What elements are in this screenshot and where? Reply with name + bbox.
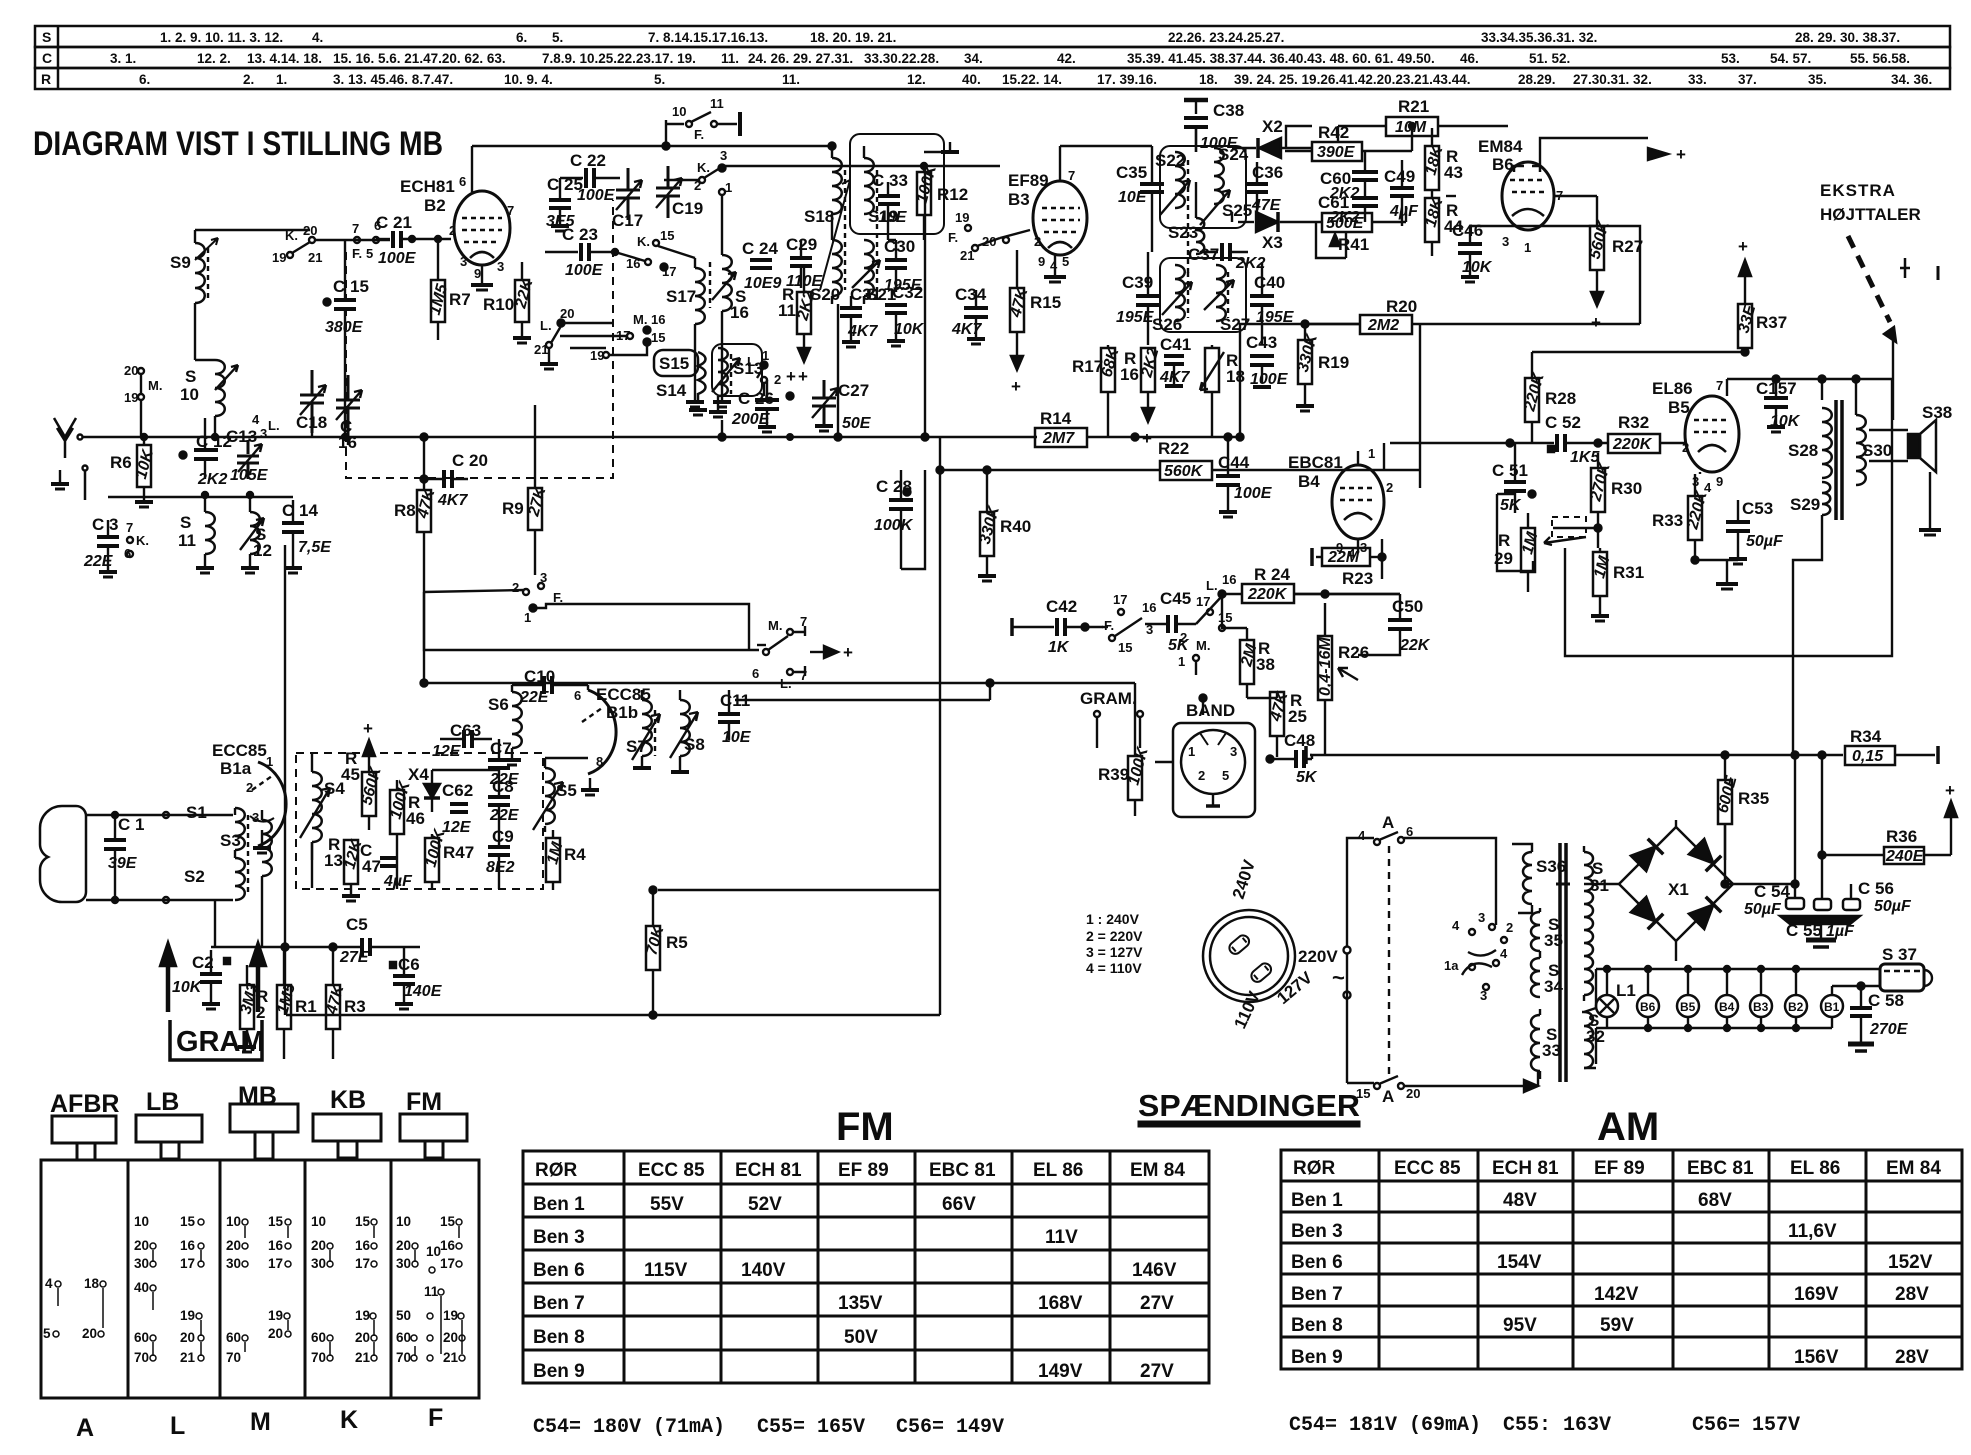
svg-text:18.: 18. (1199, 72, 1218, 87)
svg-text:F.: F. (352, 246, 362, 261)
svg-text:1.: 1. (276, 72, 287, 87)
resistor R14 (1035, 409, 1240, 447)
svg-text:LB: LB (146, 1088, 179, 1116)
resistor R15 (1007, 250, 1061, 396)
speaker S38 (1869, 403, 1952, 535)
svg-text:C 51: C 51 (1492, 461, 1528, 480)
switch A top (1358, 813, 1413, 1080)
svg-text:B1: B1 (1824, 1000, 1840, 1014)
svg-text:A: A (1382, 1087, 1394, 1106)
B+ line with R34 (1306, 727, 1938, 765)
EF89 plate rail (1059, 146, 1061, 181)
coil S23 mid (1196, 182, 1204, 254)
svg-text:Ben 7: Ben 7 (533, 1293, 585, 1314)
tuning caps C18 C16 (296, 370, 327, 433)
svg-text:C 24: C 24 (742, 239, 778, 258)
svg-text:34.: 34. (964, 51, 983, 66)
svg-text:3: 3 (720, 148, 727, 163)
coil S12 (240, 495, 272, 573)
svg-text:154V: 154V (1497, 1252, 1542, 1273)
svg-text:C43: C43 (1246, 333, 1277, 352)
capacitor C7 (488, 739, 520, 788)
svg-text:EL 86: EL 86 (1033, 1160, 1083, 1181)
svg-text:55. 56.58.: 55. 56.58. (1850, 51, 1910, 66)
svg-text:169V: 169V (1794, 1284, 1839, 1305)
svg-text:18: 18 (84, 1276, 100, 1291)
svg-text:100E: 100E (565, 262, 604, 279)
capacitor C11 (718, 690, 752, 746)
svg-text:R9: R9 (502, 499, 524, 518)
svg-text:+: + (1591, 313, 1601, 332)
main bus y=437 (430, 436, 1037, 438)
svg-text:Ben 1: Ben 1 (1291, 1190, 1343, 1211)
svg-text:3: 3 (460, 254, 467, 269)
svg-text:60: 60 (396, 1330, 411, 1345)
svg-text:15: 15 (660, 228, 674, 243)
svg-text:B3: B3 (1753, 1000, 1769, 1014)
svg-text:2K2: 2K2 (197, 471, 227, 488)
capacitor C40 (1250, 262, 1295, 345)
resistor R23 (1312, 539, 1386, 588)
svg-text:7: 7 (507, 203, 514, 218)
svg-text:17: 17 (1196, 594, 1210, 609)
svg-text:B2: B2 (424, 196, 446, 215)
resistor R3 (323, 944, 366, 1060)
coil S13 (709, 348, 763, 417)
svg-text:2: 2 (449, 223, 456, 238)
transformer core (1558, 843, 1562, 1082)
BAND socket (1155, 695, 1255, 818)
svg-text:22E: 22E (519, 689, 550, 706)
svg-text:+: + (798, 367, 808, 386)
svg-text:1: 1 (1524, 240, 1531, 255)
S15/S14 box (654, 350, 707, 415)
resistor R39 (1098, 683, 1152, 816)
svg-text:Ben 8: Ben 8 (533, 1327, 585, 1348)
capacitor C5 (285, 915, 420, 966)
resistor R9 (502, 405, 550, 575)
dashed FM box (296, 753, 543, 889)
svg-text:C42: C42 (1046, 597, 1077, 616)
svg-text:1: 1 (266, 754, 273, 769)
svg-text:20: 20 (226, 1238, 241, 1253)
svg-text:105E: 105E (230, 467, 269, 484)
resistor R38 (1238, 628, 1277, 698)
svg-text:RØR: RØR (1293, 1158, 1336, 1179)
resistor R6 (110, 434, 157, 507)
svg-text:R21: R21 (1398, 97, 1429, 116)
wire top of S9 (195, 229, 310, 231)
svg-text:2: 2 (1034, 234, 1041, 249)
svg-text:EL86: EL86 (1652, 379, 1693, 398)
svg-text:390E: 390E (1317, 144, 1356, 161)
wire K3 to right (724, 165, 1000, 167)
svg-text:17: 17 (268, 1256, 283, 1271)
svg-text:33.34.35.36.31. 32.: 33.34.35.36.31. 32. (1481, 30, 1597, 45)
svg-text:EKSTRA: EKSTRA (1820, 181, 1896, 200)
pickup wires (86, 814, 233, 816)
trimmer C17 (612, 168, 643, 230)
svg-text:L.: L. (540, 318, 552, 333)
resistor R17 (1072, 345, 1123, 437)
svg-text:20: 20 (355, 1330, 370, 1345)
svg-text:2.: 2. (243, 72, 254, 87)
svg-text:1 : 240V: 1 : 240V (1086, 911, 1140, 927)
svg-text:S: S (180, 513, 191, 532)
svg-text:7: 7 (1716, 378, 1723, 393)
svg-text:2: 2 (1180, 630, 1187, 645)
tube EBC81 B4 (1288, 446, 1393, 561)
svg-text:3: 3 (1502, 234, 1509, 249)
svg-text:21: 21 (308, 250, 322, 265)
svg-text:53.: 53. (1721, 51, 1740, 66)
svg-text:X2: X2 (1262, 117, 1283, 136)
svg-text:10K: 10K (1462, 259, 1493, 276)
svg-text:0,15: 0,15 (1852, 748, 1884, 765)
capacitor C44 (1216, 434, 1273, 518)
svg-text:22K: 22K (1399, 637, 1431, 654)
svg-text:2M2: 2M2 (1367, 317, 1399, 334)
svg-text:B6: B6 (1640, 1000, 1656, 1014)
svg-text:142V: 142V (1594, 1284, 1639, 1305)
svg-text:68V: 68V (1698, 1190, 1732, 1211)
capacitor C35 (1116, 146, 1164, 252)
svg-text:19: 19 (355, 1308, 370, 1323)
trimmer C19 (656, 166, 703, 218)
svg-text:C56= 157V: C56= 157V (1692, 1414, 1800, 1437)
svg-text:1µF: 1µF (1826, 923, 1855, 940)
coil S3 (220, 810, 272, 890)
svg-text:4K7: 4K7 (951, 321, 982, 338)
svg-text:20: 20 (268, 1326, 283, 1341)
svg-text:C41: C41 (1160, 335, 1191, 354)
svg-text:35.: 35. (1808, 72, 1827, 87)
svg-text:2K2: 2K2 (1329, 209, 1359, 226)
wires controls (1294, 593, 1400, 595)
svg-text:C37: C37 (1188, 245, 1219, 264)
svg-text:270E: 270E (1869, 1021, 1909, 1038)
svg-text:C48: C48 (1284, 731, 1315, 750)
svg-text:156V: 156V (1794, 1347, 1839, 1368)
svg-text:11: 11 (178, 531, 196, 550)
capacitor C6 (390, 947, 443, 1009)
svg-text:19: 19 (443, 1308, 458, 1323)
svg-text:11: 11 (778, 301, 796, 320)
secondary S31 (1556, 846, 1609, 1001)
svg-text:2: 2 (1198, 768, 1205, 783)
svg-text:Ben 8: Ben 8 (1291, 1315, 1343, 1336)
heater winding S32 (1584, 1011, 1605, 1068)
riser to EM84 grid (1502, 226, 1640, 324)
svg-text:10K: 10K (894, 321, 925, 338)
svg-text:RØR: RØR (535, 1160, 578, 1181)
svg-text:22E: 22E (83, 553, 114, 570)
resistor R42 (1285, 123, 1392, 161)
svg-text:R27: R27 (1612, 237, 1643, 256)
svg-text:12. 2.: 12. 2. (197, 51, 231, 66)
rail y=352 (1532, 351, 1745, 353)
svg-text:SPÆNDINGER: SPÆNDINGER (1138, 1088, 1360, 1123)
svg-text:7.8.9. 10.25.22.23.17. 19.: 7.8.9. 10.25.22.23.17. 19. (542, 51, 696, 66)
svg-text:24. 26. 29. 27.31.: 24. 26. 29. 27.31. (748, 51, 853, 66)
svg-text:13. 4.14. 18.: 13. 4.14. 18. (247, 51, 322, 66)
svg-text:M: M (250, 1408, 271, 1436)
svg-text:Ben 7: Ben 7 (1291, 1284, 1343, 1305)
svg-text:39. 24. 25. 19.26.41.42.20.23.: 39. 24. 25. 19.26.41.42.20.23.21.43.44. (1234, 72, 1470, 87)
plate/screen wiring EL86 (1726, 379, 1728, 396)
capacitor C49 (1384, 160, 1419, 226)
svg-text:S18: S18 (804, 207, 834, 226)
svg-text:8: 8 (596, 754, 603, 769)
svg-text:ECC 85: ECC 85 (638, 1160, 705, 1181)
capacitor C9 (486, 827, 515, 876)
svg-text:3: 3 (252, 810, 259, 825)
svg-text:6.: 6. (516, 30, 527, 45)
dashed gang box (346, 200, 613, 478)
heater B3 (1750, 995, 1772, 1017)
svg-text:C49: C49 (1384, 167, 1415, 186)
AM voltage table (1281, 1150, 1962, 1369)
lower switch F 2/3/1 (424, 570, 563, 625)
resistor R8 + C20 (394, 434, 439, 651)
svg-text:20: 20 (180, 1330, 195, 1345)
svg-text:R8: R8 (394, 501, 416, 520)
resistor R4 (544, 830, 586, 890)
resistor R41 500E (1316, 213, 1406, 254)
svg-text:S5: S5 (556, 781, 577, 800)
svg-text:100E: 100E (378, 250, 417, 267)
capacitors C60 C61 (1318, 151, 1378, 226)
svg-text:10K: 10K (172, 979, 203, 996)
switch A bottom (1356, 1076, 1420, 1106)
svg-text:60: 60 (134, 1330, 149, 1345)
svg-text:3: 3 (1480, 988, 1487, 1003)
svg-text:1K: 1K (1048, 639, 1070, 656)
svg-text:20: 20 (1406, 1086, 1420, 1101)
resistor R25 (1267, 689, 1307, 757)
svg-text:R12: R12 (937, 185, 968, 204)
heater B1 (1821, 995, 1843, 1017)
coil S11 (178, 495, 215, 573)
svg-text:R 24: R 24 (1254, 565, 1290, 584)
svg-text:27E: 27E (339, 949, 370, 966)
svg-text:S30: S30 (1862, 441, 1892, 460)
coil S6 (488, 685, 522, 765)
svg-text:2M7: 2M7 (1042, 430, 1075, 447)
svg-text:115V: 115V (644, 1260, 688, 1281)
resistor R16 (1120, 346, 1163, 448)
svg-text:GRAM.: GRAM. (1080, 689, 1137, 708)
svg-text:3: 3 (497, 259, 504, 274)
resistor R36 (power) (1822, 781, 1957, 865)
switch L16 M (1142, 572, 1236, 675)
svg-text:1: 1 (1368, 446, 1375, 461)
svg-text:C55= 165V: C55= 165V (757, 1416, 865, 1439)
key KB (313, 1114, 381, 1158)
svg-text:4: 4 (45, 1276, 53, 1291)
svg-text:33.: 33. (1688, 72, 1707, 87)
resistor R7 (427, 236, 471, 340)
svg-text:240E: 240E (1885, 848, 1925, 865)
capacitor C37 (1188, 243, 1265, 272)
svg-text:Ben 3: Ben 3 (533, 1227, 585, 1248)
svg-text:3 = 127V: 3 = 127V (1086, 944, 1143, 960)
capacitor C15 (324, 277, 369, 339)
svg-text:40.: 40. (962, 72, 981, 87)
svg-text:50: 50 (396, 1308, 411, 1323)
svg-text:ECH 81: ECH 81 (735, 1160, 802, 1181)
svg-text:70: 70 (396, 1350, 411, 1365)
svg-text:R4: R4 (564, 845, 586, 864)
svg-text:F: F (428, 1404, 443, 1432)
svg-text:10: 10 (672, 104, 686, 119)
wires center-left (344, 240, 346, 280)
svg-text:C62: C62 (442, 781, 473, 800)
svg-text:21: 21 (355, 1350, 371, 1365)
svg-text:19: 19 (124, 390, 138, 405)
svg-text:11.: 11. (782, 72, 800, 87)
svg-text:L1: L1 (1616, 981, 1636, 1000)
svg-text:R: R (41, 71, 51, 87)
svg-text:+: + (1945, 781, 1955, 800)
svg-text:5K: 5K (1500, 497, 1522, 514)
svg-text:L.: L. (1206, 578, 1218, 593)
resistor R19 (1295, 324, 1350, 411)
tube ECH81 B2 (400, 174, 514, 281)
svg-text:C 33: C 33 (872, 171, 908, 190)
resistor R21 (1338, 97, 1508, 142)
svg-text:+: + (843, 643, 853, 662)
svg-text:B4: B4 (1298, 472, 1320, 491)
svg-text:10. 9. 4.: 10. 9. 4. (504, 72, 553, 87)
svg-text:S15: S15 (659, 354, 689, 373)
switch L 20/21 (534, 306, 612, 369)
svg-text:S8: S8 (684, 735, 705, 754)
svg-text:70: 70 (226, 1350, 241, 1365)
capacitor C28 (874, 470, 914, 569)
svg-text:50µF: 50µF (1746, 533, 1784, 550)
switch S37 (1880, 945, 1932, 991)
svg-text:42.: 42. (1057, 51, 1076, 66)
svg-text:B3: B3 (1008, 190, 1030, 209)
svg-text:43: 43 (1444, 163, 1463, 182)
svg-text:ECH81: ECH81 (400, 177, 455, 196)
switch K 15 (615, 228, 695, 279)
diode X4 / C62 (408, 765, 473, 836)
svg-text:11,6V: 11,6V (1788, 1221, 1837, 1242)
voltage list (1086, 911, 1143, 976)
speaker terminal (1900, 258, 1938, 280)
svg-text:C19: C19 (672, 199, 703, 218)
svg-text:46.: 46. (1460, 51, 1479, 66)
lamp L1 (1596, 995, 1618, 1017)
svg-text:R10: R10 (483, 295, 514, 314)
wire junctions left tuner (108, 496, 293, 498)
capacitor C2 (172, 950, 230, 1009)
svg-text:95V: 95V (1503, 1315, 1537, 1336)
svg-text:R17: R17 (1072, 357, 1103, 376)
svg-text:28V: 28V (1895, 1284, 1929, 1305)
svg-text:9: 9 (474, 266, 481, 281)
tube EM84 B6 (1478, 137, 1563, 255)
IF transformer S19/S21 (852, 146, 898, 304)
svg-text:C44: C44 (1218, 453, 1250, 472)
svg-text:BAND: BAND (1186, 701, 1235, 720)
coil S7 (626, 690, 660, 768)
svg-text:220K: 220K (1247, 586, 1288, 603)
svg-text:C 52: C 52 (1545, 413, 1581, 432)
switch M 16/17/15 (560, 312, 665, 363)
ground (51, 466, 88, 501)
svg-text:C40: C40 (1254, 273, 1285, 292)
svg-text:54. 57.: 54. 57. (1770, 51, 1811, 66)
svg-text:6.: 6. (139, 72, 150, 87)
svg-text:31: 31 (1590, 876, 1609, 895)
svg-text:B2: B2 (1788, 1000, 1804, 1014)
top rail (472, 145, 832, 147)
svg-text:5: 5 (43, 1326, 51, 1341)
svg-text:1a: 1a (1444, 958, 1459, 973)
svg-text:10E: 10E (878, 209, 908, 226)
svg-text:4K7: 4K7 (437, 492, 468, 509)
antenna (54, 418, 83, 458)
capacitor C55 (1780, 899, 1860, 947)
svg-text:L.: L. (268, 418, 280, 433)
wires detector (1286, 126, 1312, 148)
capacitor C31 (840, 285, 881, 347)
svg-text:22M: 22M (1327, 549, 1360, 566)
svg-text:4µF: 4µF (1389, 203, 1419, 220)
svg-text:21: 21 (180, 1350, 196, 1365)
svg-text:4: 4 (1500, 946, 1508, 961)
svg-text:B5: B5 (1668, 398, 1690, 417)
switch F 17/15 (1104, 592, 1142, 655)
svg-text:3: 3 (260, 426, 267, 441)
svg-text:59V: 59V (1600, 1315, 1634, 1336)
svg-text:C8: C8 (492, 777, 514, 796)
svg-text:13: 13 (324, 851, 343, 870)
svg-text:16: 16 (1222, 572, 1236, 587)
FM voltage table (523, 1151, 1209, 1383)
svg-text:EF 89: EF 89 (838, 1160, 889, 1181)
capacitor C25 (546, 175, 583, 231)
capacitor C22 (560, 151, 620, 204)
capacitor C43 (1246, 333, 1289, 388)
tube ECC85 B1a (212, 741, 286, 853)
svg-text:11.: 11. (721, 51, 739, 66)
svg-text:+: + (1676, 145, 1686, 164)
resistor R47 (422, 826, 474, 890)
wire x=722 grid drop (721, 420, 723, 437)
svg-text:S1: S1 (186, 803, 207, 822)
svg-text:R23: R23 (1342, 569, 1373, 588)
svg-text:X3: X3 (1262, 233, 1283, 252)
svg-text:20: 20 (311, 1238, 326, 1253)
GRAM arrows (160, 942, 266, 1060)
ground under ECH81 (471, 265, 493, 290)
svg-text:3. 13. 45.46. 8.7.47.: 3. 13. 45.46. 8.7.47. (333, 72, 453, 87)
svg-text:2: 2 (774, 372, 781, 387)
svg-text:S: S (42, 29, 51, 45)
capacitor C52 (1384, 413, 1608, 470)
heater B5 (1677, 995, 1699, 1017)
svg-text:28V: 28V (1895, 1347, 1929, 1368)
svg-text:2: 2 (1386, 480, 1393, 495)
capacitor C10 (512, 667, 588, 706)
svg-text:F.: F. (1104, 618, 1114, 633)
svg-text:C 25: C 25 (547, 175, 583, 194)
svg-text:34. 36.: 34. 36. (1891, 72, 1932, 87)
